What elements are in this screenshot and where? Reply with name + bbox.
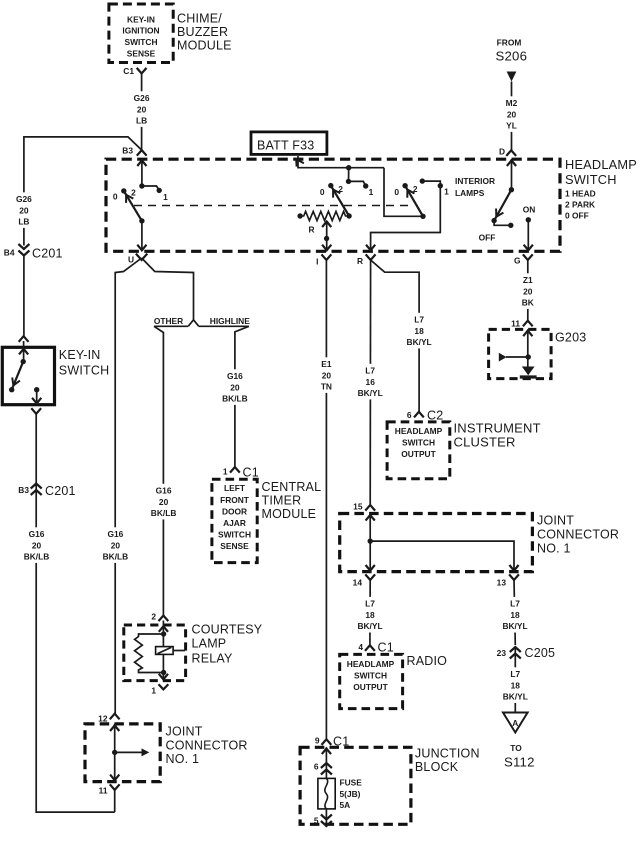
svg-text:SWITCH: SWITCH (565, 172, 617, 187)
svg-text:1: 1 (369, 187, 374, 197)
label FROM S206 (496, 38, 528, 64)
svg-text:12: 12 (98, 714, 108, 724)
svg-text:18: 18 (510, 610, 520, 620)
svg-text:B4: B4 (4, 248, 15, 258)
svg-text:HEADLAMP: HEADLAMP (347, 659, 395, 669)
svg-text:18: 18 (365, 610, 375, 620)
wire label M2 20 YL (504, 96, 520, 132)
connector 1 relay (151, 684, 168, 695)
wire L7 from R to joint connector 15 (369, 260, 371, 505)
svg-text:D: D (499, 147, 505, 157)
svg-text:BK/YL: BK/YL (358, 388, 383, 398)
connector 11 at G203 (511, 319, 533, 329)
svg-text:SWITCH: SWITCH (218, 530, 251, 540)
svg-text:2: 2 (131, 188, 136, 198)
svg-text:20: 20 (19, 205, 29, 215)
svg-text:G16: G16 (107, 529, 123, 539)
svg-text:HEADLAMP: HEADLAMP (565, 157, 637, 172)
svg-text:L7: L7 (510, 669, 520, 679)
connector fork I (316, 254, 331, 266)
svg-text:2: 2 (413, 184, 418, 194)
wire label G16 highline (220, 369, 251, 405)
mechanical link dashed line (134, 205, 412, 207)
svg-text:B3: B3 (18, 485, 29, 495)
label JUNCTION BLOCK (415, 747, 480, 775)
svg-text:BK: BK (522, 298, 534, 308)
wire key-in switch to C201 B3 (35, 414, 37, 484)
svg-text:18: 18 (511, 680, 521, 690)
svg-text:4: 4 (358, 642, 363, 652)
connector 2 relay (151, 612, 168, 622)
wire HIGHLINE branch down to central timer (235, 326, 249, 467)
svg-text:CLUSTER: CLUSTER (454, 435, 516, 450)
svg-text:14: 14 (353, 578, 363, 588)
svg-text:LAMP: LAMP (192, 637, 227, 651)
wire G16 left column to bottom (36, 484, 115, 813)
svg-text:11: 11 (99, 786, 108, 796)
radio box (340, 654, 403, 708)
svg-text:SWITCH: SWITCH (59, 364, 110, 378)
svg-text:20: 20 (507, 109, 517, 119)
svg-text:B3: B3 (122, 146, 133, 156)
svg-text:5: 5 (314, 816, 319, 826)
svg-text:KEY-IN: KEY-IN (127, 14, 155, 24)
courtesy lamp relay box (124, 625, 186, 681)
svg-text:5(JB): 5(JB) (340, 789, 361, 799)
label KEY-IN SWITCH (59, 348, 110, 378)
svg-text:20: 20 (32, 540, 42, 550)
wire label Z1 20 BK (520, 273, 536, 309)
svg-text:INTERIOR: INTERIOR (455, 176, 495, 186)
svg-text:C1: C1 (378, 641, 394, 655)
svg-text:G203: G203 (555, 331, 586, 345)
svg-text:SWITCH: SWITCH (124, 37, 157, 47)
svg-text:LAMPS: LAMPS (455, 188, 485, 198)
wire label G16 other (148, 484, 179, 520)
svg-text:A: A (512, 718, 518, 728)
label COURTESY LAMP RELAY (192, 623, 263, 666)
svg-text:L7: L7 (414, 315, 424, 325)
svg-text:CONNECTOR: CONNECTOR (537, 528, 619, 542)
connector 4 C1 radio (358, 641, 394, 655)
wire U to highline caret (142, 258, 194, 320)
svg-text:2 PARK: 2 PARK (565, 200, 595, 210)
svg-text:NO. 1: NO. 1 (166, 752, 200, 766)
splice A triangle (503, 713, 528, 733)
svg-text:COURTESY: COURTESY (192, 623, 263, 637)
svg-text:20: 20 (111, 540, 121, 550)
label HEADLAMP SWITCH (565, 157, 637, 187)
connector fork R (357, 254, 376, 266)
svg-text:C205: C205 (525, 646, 556, 660)
svg-text:TO: TO (510, 743, 522, 753)
connector 15 joint connector (353, 502, 375, 512)
key-in switch internals (9, 341, 41, 405)
svg-text:BLOCK: BLOCK (415, 760, 459, 774)
ground G203 internals (499, 329, 537, 377)
joint connector left internals (110, 724, 149, 781)
wire G26 from chime C1 to headlamp switch B3 (141, 74, 143, 151)
wire label L7 18 BK/YL radio (355, 597, 386, 633)
svg-text:AJAR: AJAR (223, 518, 246, 528)
wire L7 branch from R to instrument cluster (371, 260, 420, 412)
connector 6 C2 instrument cluster (407, 409, 444, 423)
svg-text:6: 6 (407, 410, 412, 420)
wire label G26 20 LB left (14, 192, 34, 228)
wire L7 from 14 to radio (369, 580, 371, 645)
wire label L7 16 BK/YL (355, 364, 386, 400)
connector fork D (499, 147, 516, 157)
svg-text:SWITCH: SWITCH (354, 670, 387, 680)
headlamp switch box (106, 159, 560, 251)
svg-text:FRONT: FRONT (220, 495, 250, 505)
svg-text:1 HEAD: 1 HEAD (565, 189, 596, 199)
svg-text:BK/LB: BK/LB (151, 508, 177, 518)
svg-text:G26: G26 (16, 194, 32, 204)
svg-text:G26: G26 (134, 93, 150, 103)
svg-text:C1: C1 (123, 66, 134, 76)
svg-text:G16: G16 (156, 486, 172, 496)
label JOINT CONNECTOR NO. 1 left (166, 725, 248, 767)
connector fork key-in switch top (19, 336, 29, 342)
svg-text:20: 20 (230, 382, 240, 392)
svg-text:C201: C201 (45, 484, 76, 498)
svg-text:JUNCTION: JUNCTION (415, 747, 480, 761)
wire split from U (115, 258, 141, 714)
connector fork key-in switch bottom (31, 408, 41, 414)
label CHIME/BUZZER MODULE (177, 12, 232, 53)
svg-text:CENTRAL: CENTRAL (262, 480, 322, 494)
svg-text:E1: E1 (321, 359, 332, 369)
label TO S112 (504, 743, 535, 770)
svg-text:RELAY: RELAY (192, 652, 234, 666)
svg-text:SENSE: SENSE (127, 49, 156, 59)
svg-text:15: 15 (353, 502, 363, 512)
wire E1 from I to junction block (325, 260, 327, 739)
svg-text:JOINT: JOINT (537, 514, 574, 528)
BATT F33 box (251, 132, 327, 155)
svg-text:BUZZER: BUZZER (177, 25, 228, 39)
connector 13 (497, 574, 519, 587)
svg-text:RADIO: RADIO (407, 654, 448, 668)
svg-text:11: 11 (511, 319, 520, 329)
svg-text:BK/LB: BK/LB (24, 552, 50, 562)
connector 11 (99, 784, 120, 795)
svg-text:CHIME/: CHIME/ (177, 12, 222, 26)
svg-text:BK/LB: BK/LB (103, 552, 129, 562)
svg-text:TN: TN (321, 382, 332, 392)
wire 11 to bottom junction (114, 790, 116, 812)
svg-text:SENSE: SENSE (220, 541, 249, 551)
svg-text:SWITCH: SWITCH (402, 438, 435, 448)
svg-text:BATT F33: BATT F33 (257, 139, 314, 153)
svg-text:U: U (128, 255, 134, 265)
svg-text:13: 13 (497, 578, 507, 588)
svg-text:CONNECTOR: CONNECTOR (166, 739, 248, 753)
svg-text:G16: G16 (227, 371, 243, 381)
svg-text:KEY-IN: KEY-IN (59, 348, 101, 362)
wire label L7 18 BK/YL s112 (500, 667, 531, 703)
ground G203 box (489, 329, 551, 378)
svg-text:BK/YL: BK/YL (407, 337, 432, 347)
connector 23 C205 (497, 646, 556, 660)
key-in switch box (2, 347, 54, 404)
svg-text:BK/LB: BK/LB (222, 394, 248, 404)
svg-text:LEFT: LEFT (224, 483, 246, 493)
wire label G26 20 LB (132, 91, 152, 127)
wire branch to C201 B4 (24, 137, 142, 246)
svg-text:OTHER: OTHER (154, 316, 183, 326)
connector fork B3 (122, 146, 146, 156)
junction block internals: fuse 5 (314, 747, 362, 826)
splice triangle from S206 (507, 72, 517, 82)
central timer module box (212, 479, 257, 562)
wire C201 to key-in switch (23, 256, 25, 337)
svg-text:S206: S206 (496, 49, 528, 64)
connector 12 (98, 714, 119, 724)
joint connector internals (366, 514, 519, 571)
svg-text:MODULE: MODULE (177, 39, 232, 53)
svg-text:0: 0 (113, 192, 118, 202)
wire OTHER branch down to relay (154, 326, 163, 615)
chime/buzzer module box (109, 4, 173, 63)
svg-text:1: 1 (444, 187, 449, 197)
svg-text:C1: C1 (243, 466, 259, 480)
label CENTRAL TIMER MODULE (262, 480, 322, 521)
svg-text:I: I (316, 257, 318, 267)
wire label G16 left (21, 527, 52, 563)
svg-text:OFF: OFF (479, 233, 496, 243)
svg-text:20: 20 (137, 104, 147, 114)
headlamp switch dimmer section (rheostat R) (297, 168, 373, 251)
wire M2 to headlamp switch D (511, 82, 513, 151)
svg-text:NO. 1: NO. 1 (537, 542, 571, 556)
label JOINT CONNECTOR NO. 1 (537, 514, 619, 556)
svg-text:1: 1 (163, 192, 168, 202)
svg-text:1: 1 (223, 467, 228, 477)
connector 1 C1 central timer (223, 466, 259, 480)
svg-text:5A: 5A (340, 800, 351, 810)
wire L7 from C205 to splice A (514, 647, 516, 713)
svg-text:0: 0 (394, 187, 399, 197)
connector fork G (514, 254, 533, 265)
svg-text:R: R (357, 256, 363, 266)
svg-text:20: 20 (159, 497, 169, 507)
svg-text:FUSE: FUSE (340, 778, 363, 788)
instrument cluster box (387, 422, 450, 479)
svg-text:G: G (514, 256, 521, 266)
svg-text:ON: ON (523, 205, 536, 215)
svg-text:HEADLAMP: HEADLAMP (395, 426, 443, 436)
connector fork U (128, 254, 147, 265)
label INTERIOR LAMPS (455, 176, 495, 198)
svg-text:HIGHLINE: HIGHLINE (210, 316, 250, 326)
wire label L7 18 BK/YL c205 (500, 597, 531, 633)
svg-text:FROM: FROM (497, 38, 522, 48)
svg-text:LB: LB (18, 217, 29, 227)
svg-text:IGNITION: IGNITION (122, 26, 159, 36)
svg-text:BK/YL: BK/YL (357, 621, 382, 631)
svg-text:L7: L7 (510, 599, 520, 609)
svg-text:2: 2 (151, 612, 156, 622)
relay internals: coil and contact (135, 621, 185, 681)
svg-text:M2: M2 (506, 98, 518, 108)
wire Z1 from G to G203 (527, 260, 529, 321)
svg-text:DOOR: DOOR (222, 506, 247, 516)
OTHER / HIGHLINE branch line (154, 316, 250, 326)
svg-text:20: 20 (322, 370, 332, 380)
svg-text:TIMER: TIMER (262, 494, 302, 508)
headlamp switch interior lamps section (366, 168, 449, 251)
svg-text:0: 0 (320, 187, 325, 197)
svg-text:R: R (308, 225, 314, 235)
wire label L7 18 BK/YL c2 (404, 313, 435, 349)
joint connector no.1 box (left) (85, 724, 160, 782)
svg-text:MODULE: MODULE (262, 507, 317, 521)
wire label G16 col2 (100, 527, 131, 563)
label INSTRUMENT CLUSTER (454, 421, 541, 450)
svg-text:20: 20 (523, 286, 533, 296)
headlamp switch section B3-U (113, 159, 168, 251)
svg-text:C201: C201 (32, 247, 63, 261)
headlamp switch on/off section (479, 159, 536, 251)
wire L7 from 13 to C205 (514, 580, 515, 645)
svg-text:JOINT: JOINT (166, 725, 203, 739)
svg-text:18: 18 (414, 326, 424, 336)
svg-text:OUTPUT: OUTPUT (353, 682, 388, 692)
svg-text:0 OFF: 0 OFF (565, 211, 589, 221)
svg-text:L7: L7 (365, 366, 375, 376)
svg-text:BK/YL: BK/YL (502, 621, 527, 631)
svg-text:G16: G16 (29, 529, 45, 539)
svg-text:L7: L7 (365, 599, 375, 609)
connector B4 C201 (4, 244, 63, 261)
connector 9 C1 junction block (315, 735, 350, 749)
connector B3 C201 lower (18, 484, 75, 499)
joint connector no.1 box (right) (340, 514, 533, 572)
svg-text:BK/YL: BK/YL (503, 692, 528, 702)
wire label E1 20 TN (318, 357, 334, 393)
svg-text:LB: LB (136, 116, 147, 126)
connector 14 (353, 574, 375, 587)
svg-text:1: 1 (151, 686, 156, 696)
svg-text:Z1: Z1 (523, 275, 533, 285)
connector C1 chime (123, 66, 146, 76)
svg-text:INSTRUMENT: INSTRUMENT (454, 421, 541, 436)
svg-text:23: 23 (497, 648, 507, 658)
svg-text:6: 6 (314, 762, 319, 772)
wire BATT F33 into headlamp switch (296, 156, 384, 170)
svg-text:YL: YL (506, 121, 517, 131)
svg-text:S112: S112 (504, 755, 535, 770)
svg-text:16: 16 (366, 377, 376, 387)
junction block box (300, 747, 411, 824)
svg-text:OUTPUT: OUTPUT (401, 449, 436, 459)
svg-text:9: 9 (315, 736, 320, 746)
